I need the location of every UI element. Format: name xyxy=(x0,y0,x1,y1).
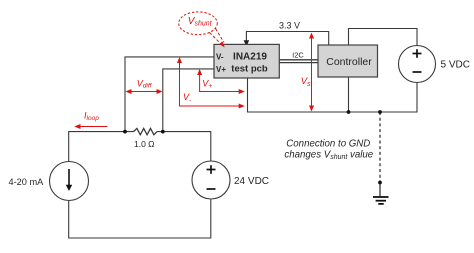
svg-text:changes Vshunt value: changes Vshunt value xyxy=(284,150,373,162)
svg-text:4-20 mA: 4-20 mA xyxy=(9,177,45,187)
svg-text:Controller: Controller xyxy=(326,56,372,68)
svg-text:test pcb: test pcb xyxy=(231,64,268,75)
svg-text:24 VDC: 24 VDC xyxy=(234,176,269,187)
svg-text:INA219: INA219 xyxy=(233,52,267,63)
svg-text:V-: V- xyxy=(216,53,224,62)
svg-text:I2C: I2C xyxy=(292,50,304,59)
svg-text:5 VDC: 5 VDC xyxy=(441,60,470,71)
svg-text:Connection to GND: Connection to GND xyxy=(286,138,370,149)
svg-text:3.3 V: 3.3 V xyxy=(279,20,300,30)
svg-text:V+: V+ xyxy=(216,65,226,74)
svg-text:1.0 Ω: 1.0 Ω xyxy=(134,139,155,149)
